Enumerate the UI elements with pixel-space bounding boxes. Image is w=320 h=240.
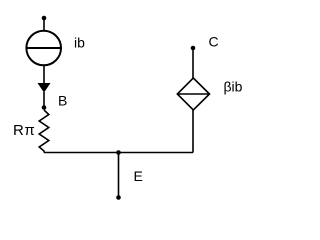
current source ib xyxy=(26,31,61,66)
svg-text:Rπ: Rπ xyxy=(13,122,35,139)
wire xyxy=(192,48,194,78)
wire xyxy=(192,110,194,153)
terminal dot (E) xyxy=(116,195,121,200)
arrow (current direction) xyxy=(38,83,51,93)
resistor Rpi xyxy=(39,110,49,153)
node E (junction) xyxy=(116,150,121,155)
wire (bottom rail) xyxy=(44,152,193,154)
dependent current source beta-ib xyxy=(177,78,209,110)
svg-text:C: C xyxy=(209,34,219,50)
wire xyxy=(118,153,120,198)
svg-text:βib: βib xyxy=(224,78,243,94)
node B xyxy=(42,105,47,110)
svg-text:B: B xyxy=(58,93,67,109)
svg-text:E: E xyxy=(134,168,143,184)
wire xyxy=(43,18,45,31)
wire xyxy=(43,65,45,84)
terminal dot (top of ib source) xyxy=(42,16,47,21)
wire xyxy=(43,92,45,108)
svg-text:ib: ib xyxy=(74,34,85,50)
node C xyxy=(191,46,196,51)
